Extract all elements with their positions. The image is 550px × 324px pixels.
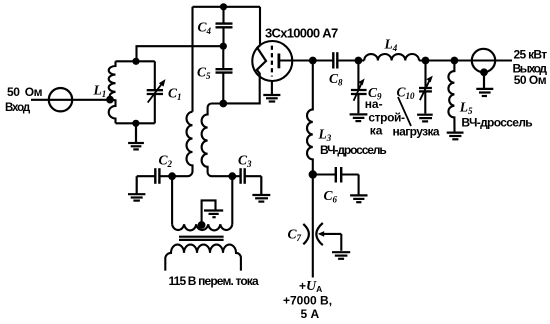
wire input lead bbox=[31, 99, 110, 101]
svg-text:115 В перем. тока: 115 В перем. тока bbox=[169, 274, 259, 288]
tube V1 grid ground lead bbox=[271, 81, 273, 95]
svg-text:ВЧ-дроссель: ВЧ-дроссель bbox=[320, 143, 386, 157]
node C9 top bbox=[355, 57, 363, 65]
svg-text:ка: ка bbox=[370, 124, 383, 138]
node tank top bbox=[132, 58, 139, 65]
capacitor C8 bbox=[333, 52, 337, 68]
inductor filament choke right bbox=[202, 104, 233, 177]
capacitor C7 (feedthrough) bbox=[303, 223, 341, 251]
tube V1 anode bar bbox=[277, 54, 280, 69]
transformer T1 primary bbox=[165, 245, 241, 271]
ground grid bbox=[263, 95, 280, 102]
node C3 bbox=[228, 172, 236, 180]
node C4-C5 midpoint bbox=[220, 43, 227, 50]
ground C6 bbox=[350, 195, 367, 202]
capacitor C10 (variable) bbox=[419, 61, 433, 114]
inductor L3 bbox=[307, 61, 313, 175]
wire anode feed bbox=[312, 175, 314, 278]
node cathode bottom bbox=[219, 100, 227, 108]
wire box top edge bbox=[193, 6, 261, 8]
inductor filament choke left bbox=[172, 112, 192, 176]
ground below L1 tank bbox=[128, 123, 144, 149]
transformer T1 secondary bbox=[172, 224, 232, 230]
tube V1 filament bbox=[257, 45, 266, 77]
node L3 bottom bbox=[309, 170, 317, 178]
capacitor C5 bbox=[216, 46, 233, 103]
ground C2 bbox=[128, 176, 145, 200]
capacitor C4 bbox=[216, 7, 233, 46]
wire box right edge bbox=[259, 7, 261, 46]
capacitor C3 bbox=[232, 168, 261, 184]
wire secondary left bbox=[171, 176, 173, 224]
svg-text:строй-: строй- bbox=[368, 111, 405, 125]
node L5 top bbox=[451, 57, 459, 65]
node anode bbox=[309, 57, 317, 65]
svg-text:50 Ом: 50 Ом bbox=[7, 85, 43, 99]
transformer T1 core bbox=[179, 237, 224, 240]
svg-text:+7000 В,: +7000 В, bbox=[283, 293, 332, 307]
input connector J1 bbox=[49, 88, 72, 111]
node C2 bbox=[168, 172, 176, 180]
wire tank bottom edge bbox=[116, 122, 155, 124]
tube V1 envelope bbox=[252, 41, 292, 81]
capacitor C6 bbox=[313, 167, 359, 195]
ground L5 bbox=[447, 133, 464, 140]
ground C10 bbox=[417, 115, 433, 122]
ground C9 bbox=[350, 114, 368, 121]
node box top bbox=[220, 3, 227, 10]
wire tank top edge bbox=[116, 60, 155, 62]
node center tap bbox=[198, 221, 206, 229]
wire box left edge bbox=[191, 7, 193, 112]
leader line C10 to нагрузка bbox=[398, 97, 411, 126]
svg-text:ВЧ-дроссель: ВЧ-дроссель bbox=[461, 116, 532, 130]
wire secondary right bbox=[231, 176, 233, 224]
node output ground bbox=[480, 68, 488, 76]
inductor L1 bbox=[109, 61, 116, 123]
svg-text:25 кВт: 25 кВт bbox=[514, 48, 548, 62]
capacitor C2 bbox=[137, 168, 172, 184]
capacitor C1 (variable) bbox=[147, 61, 166, 123]
node L1 tap bbox=[106, 96, 114, 104]
wire anode rail mid bbox=[337, 59, 364, 61]
ground C7 bbox=[332, 252, 350, 259]
wire grid feed (L1 top to C4/C5 node) bbox=[137, 46, 224, 61]
svg-text:нагрузка: нагрузка bbox=[393, 124, 440, 138]
capacitor C9 (variable) bbox=[351, 61, 367, 114]
ground C3 bbox=[252, 176, 270, 201]
node C10 top bbox=[422, 57, 430, 65]
ground center tap bbox=[204, 211, 223, 218]
wire anode rail right bbox=[419, 59, 512, 61]
wire filament to cathode node bbox=[223, 77, 259, 103]
svg-text:5 А: 5 А bbox=[301, 307, 320, 321]
ground output bbox=[476, 72, 493, 96]
svg-text:на-: на- bbox=[365, 97, 383, 111]
node tank bottom bbox=[132, 120, 139, 127]
svg-text:Вход: Вход bbox=[5, 102, 31, 114]
wire center tap bbox=[202, 200, 216, 224]
tube V1 grid (dashed) bbox=[271, 46, 273, 77]
inductor L5 bbox=[448, 61, 454, 132]
inductor L4 bbox=[364, 54, 419, 61]
wire anode rail left bbox=[280, 59, 333, 61]
svg-text:3Сх10000 А7: 3Сх10000 А7 bbox=[265, 26, 338, 41]
svg-text:50 Ом: 50 Ом bbox=[514, 73, 547, 87]
output connector J2 bbox=[472, 49, 495, 72]
